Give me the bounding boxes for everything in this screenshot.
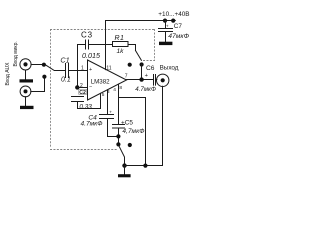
svg-text:1k: 1k (117, 48, 125, 55)
svg-text:Вход AUX: Вход AUX (5, 62, 11, 86)
svg-text:11: 11 (106, 65, 111, 71)
wire C1 to pin 1 (69, 70, 88, 72)
wire pin 2 (78, 87, 88, 89)
wire mic jack to switch contact (31, 64, 44, 66)
connector X3 "Выход" (157, 74, 169, 86)
capacitor C5 (113, 124, 125, 126)
node aux contact (42, 75, 46, 79)
switch SA1.1 blade (46, 65, 65, 70)
svg-text:4.7мкФ: 4.7мкФ (135, 86, 156, 93)
node C4/C5 junction (116, 134, 120, 138)
node switch contact (to output) (140, 62, 144, 66)
svg-text:4: 4 (113, 87, 116, 93)
svg-text:+C5: +C5 (121, 119, 133, 126)
svg-text:+: + (89, 67, 92, 73)
label C2 (79, 89, 87, 94)
wire R1 to switch pole (128, 45, 136, 51)
dashed board outline (51, 30, 155, 150)
svg-text:−: − (89, 84, 92, 90)
svg-text:C3: C3 (81, 30, 93, 39)
svg-text:47мкФ: 47мкФ (168, 33, 189, 40)
wire pin 3 to C4 (107, 90, 109, 115)
switch SA1.3 blade (119, 146, 125, 166)
node switch contact left (116, 142, 120, 146)
svg-text:+10...+40В: +10...+40В (158, 11, 189, 18)
svg-text:1: 1 (81, 66, 84, 72)
svg-text:0.1: 0.1 (61, 76, 71, 83)
node output junction (139, 77, 143, 81)
svg-text:2: 2 (80, 83, 83, 89)
svg-text:+: + (166, 24, 169, 29)
wire C2 to pin 5 (78, 93, 101, 108)
svg-text:4.7мкФ: 4.7мкФ (81, 121, 103, 128)
wire C5 down (118, 128, 120, 145)
node ground junction (122, 163, 126, 167)
ground (aux jack shield) (25, 97, 27, 106)
node pin2 junction (75, 85, 79, 89)
svg-text:+: + (109, 109, 112, 114)
node gnd bus junction (143, 164, 147, 168)
node switch contact right (open) (128, 143, 132, 147)
capacitor C4 (100, 114, 114, 116)
ground (mic jack shield) (25, 70, 27, 79)
wire pin8 branch to output gnd (119, 98, 146, 166)
svg-text:Выход: Выход (160, 65, 179, 72)
svg-text:8: 8 (119, 85, 122, 91)
svg-text:0.015: 0.015 (82, 51, 101, 60)
svg-text:Вход микр.: Вход микр. (13, 41, 19, 66)
wire C3 to R1 (89, 44, 113, 46)
wire output jack shield down (162, 86, 164, 165)
resistor R1 (113, 42, 129, 47)
svg-text:LM382: LM382 (91, 78, 110, 85)
node mic contact (42, 63, 46, 67)
pin 11 wire / supply rail (106, 21, 176, 70)
svg-text:0.33: 0.33 (79, 103, 92, 110)
wire C3 left / pin2 vertical (78, 45, 86, 88)
wire contact to output node (141, 65, 143, 80)
node C7 junction (163, 19, 167, 23)
svg-text:7: 7 (125, 74, 128, 80)
svg-text:C2: C2 (79, 90, 86, 96)
ground (main) (124, 166, 126, 175)
connector X1 "Вход микр." (20, 59, 31, 70)
node open contact (128, 63, 132, 67)
wire C4 to gnd node (108, 119, 119, 137)
capacitor C7 (165, 21, 167, 29)
capacitor C2 (72, 96, 84, 98)
node supply terminal (171, 19, 175, 23)
svg-text:C6: C6 (146, 65, 155, 72)
capacitor C6 (153, 75, 155, 86)
svg-text:3: 3 (107, 89, 110, 95)
svg-text:4,7мкФ: 4,7мкФ (122, 128, 144, 135)
ground (C7) (159, 42, 172, 45)
svg-text:R1: R1 (115, 35, 125, 42)
svg-text:C7: C7 (174, 23, 183, 30)
wire output pin 7 (126, 79, 154, 81)
svg-text:C1: C1 (60, 55, 69, 64)
wire aux jack to switch contact (31, 79, 45, 92)
capacitor C1 (65, 64, 67, 78)
wire ground bus (125, 165, 163, 167)
op-amp U1 LM382 (88, 60, 127, 100)
wire pin 8 to C5 (118, 84, 120, 124)
switch SA1.2 blade (136, 51, 142, 61)
connector X2 "Вход AUX" (20, 86, 31, 97)
capacitor C3 (85, 40, 87, 49)
svg-text:5: 5 (102, 92, 105, 98)
